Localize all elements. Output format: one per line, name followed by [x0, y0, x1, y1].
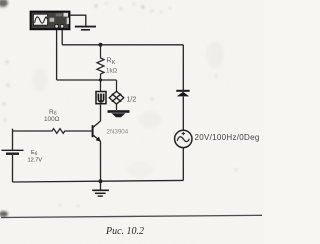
ground (top, near oscilloscope)	[75, 27, 96, 30]
wire right rail upper	[182, 45, 184, 90]
AC source V1	[175, 130, 192, 147]
wire scope right to top ground	[70, 15, 86, 25]
scan noise texture (decorative)	[0, 0, 1, 1]
wire scope A to node N1	[57, 79, 117, 81]
wire left rail lower	[12, 155, 14, 182]
wire box to collector	[100, 104, 102, 121]
diode D1	[176, 91, 189, 97]
ammeter/indicator U1 (box)	[96, 80, 106, 104]
resistor Rb (base, 100 Ohm)	[13, 129, 93, 134]
lamp/indicator X1 (diamond)	[109, 80, 124, 110]
wire emitter down	[100, 141, 102, 181]
figure rule line	[1, 215, 262, 217]
node junction bottom rail / ground	[99, 179, 103, 183]
wire scope terminal B down	[61, 30, 63, 45]
battery Eb	[2, 150, 24, 153]
oscilloscope XSC1	[31, 12, 70, 30]
transistor Q1 2N3904	[93, 121, 101, 142]
wire right rail mid	[182, 96, 184, 130]
wire bottom rail	[13, 180, 184, 182]
wire left rail upper	[12, 129, 14, 150]
scan smudges and speckles (decorative)	[0, 0, 237, 217]
node N1	[99, 78, 102, 81]
node junction top rail / RK	[99, 43, 103, 47]
resistor RK	[97, 45, 104, 80]
wire right rail lower	[182, 147, 184, 180]
ground (bottom, main)	[92, 181, 109, 196]
wire top rail	[62, 44, 183, 46]
wire scope terminal A down	[56, 30, 58, 81]
ground (under diamond, arrow style)	[108, 110, 130, 117]
